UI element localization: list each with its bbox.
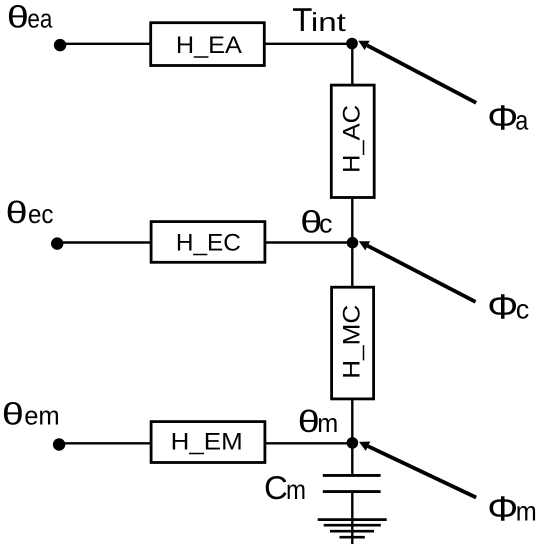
resistor H_AC xyxy=(331,85,374,197)
svg-text:Φ: Φ xyxy=(487,99,518,138)
svg-text:ec: ec xyxy=(28,199,54,229)
source label Phi_c xyxy=(487,287,529,326)
node label theta_ec xyxy=(6,195,54,230)
node Tint xyxy=(346,38,358,50)
heat flow arrow Phi_a xyxy=(358,41,476,103)
wire H_AC to node theta_c xyxy=(351,198,353,243)
svg-text:a: a xyxy=(515,106,529,136)
svg-text:c: c xyxy=(516,294,530,324)
wire terminal_ea to H_EA xyxy=(60,43,151,45)
svg-text:c: c xyxy=(319,209,333,239)
svg-text:C: C xyxy=(264,469,288,506)
terminal node (theta_ec) xyxy=(51,237,63,249)
svg-text:H_AC: H_AC xyxy=(338,105,365,173)
node label theta_c xyxy=(300,205,332,240)
node label theta_m xyxy=(298,404,339,439)
wire terminal_ec to H_EC xyxy=(57,241,151,243)
wire H_EA to node Tint xyxy=(264,43,352,45)
resistor H_MC xyxy=(332,287,374,399)
resistor H_EM xyxy=(151,422,265,463)
svg-text:m: m xyxy=(516,496,537,526)
svg-text:ea: ea xyxy=(27,4,52,34)
node theta_m xyxy=(347,437,359,449)
ground xyxy=(318,520,387,538)
node label Tint xyxy=(292,1,347,38)
wire theta_m to capacitor xyxy=(351,443,353,475)
wire H_EM to node theta_m xyxy=(265,442,352,444)
wire Tint to H_AC xyxy=(351,44,353,85)
source label Phi_m xyxy=(487,489,537,528)
svg-text:T: T xyxy=(292,1,312,38)
svg-text:θ: θ xyxy=(2,397,24,432)
wire capacitor to ground xyxy=(351,492,353,544)
source label Phi_a xyxy=(487,99,529,138)
svg-text:θ: θ xyxy=(6,195,28,230)
svg-text:Φ: Φ xyxy=(487,489,518,528)
node label theta_ea xyxy=(7,0,53,35)
svg-text:H_EM: H_EM xyxy=(171,428,243,455)
svg-text:m: m xyxy=(317,408,338,438)
capacitor Cm plates xyxy=(323,475,381,491)
svg-text:H_EC: H_EC xyxy=(176,229,241,256)
svg-text:Φ: Φ xyxy=(487,287,518,326)
wire terminal_em to H_EM xyxy=(59,442,151,444)
resistor H_EC xyxy=(151,222,265,263)
terminal node (theta_ea) xyxy=(54,39,66,51)
wire H_MC to node theta_m xyxy=(351,399,353,443)
svg-text:θ: θ xyxy=(7,0,29,35)
svg-text:H_EA: H_EA xyxy=(176,32,242,59)
wire H_EC to node theta_c xyxy=(265,241,352,243)
resistor H_EA xyxy=(151,23,265,66)
svg-text:em: em xyxy=(24,401,60,431)
value label Cm xyxy=(264,469,306,506)
svg-text:H_MC: H_MC xyxy=(338,305,365,379)
node label theta_em xyxy=(2,397,60,432)
svg-text:m: m xyxy=(286,475,306,505)
heat flow arrow Phi_m xyxy=(359,442,476,498)
terminal node (theta_em) xyxy=(53,438,65,450)
wire theta_c to H_MC xyxy=(351,243,353,288)
heat flow arrow Phi_c xyxy=(359,241,476,302)
node theta_c xyxy=(347,237,359,249)
svg-text:int: int xyxy=(311,7,347,37)
